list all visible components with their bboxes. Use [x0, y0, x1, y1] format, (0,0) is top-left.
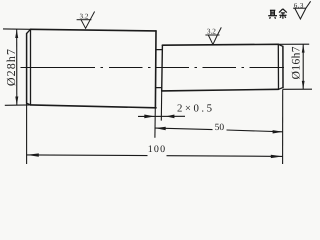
- groove right wall line: [161, 45, 164, 91]
- svg-text:3.2: 3.2: [207, 28, 216, 36]
- groove right extension line down: [160, 91, 162, 121]
- svg-text:3.2: 3.2: [80, 12, 89, 20]
- svg-text:Ø28h7: Ø28h7: [4, 48, 18, 86]
- chamfer diagonal bottom-right: [279, 88, 284, 90]
- dimension line 50 left segment: [155, 128, 212, 130]
- paper background: [0, 0, 319, 170]
- chamfer diagonal top-right: [278, 44, 283, 46]
- extension line top-left (dia 28): [3, 28, 31, 30]
- dimension line dia16h7: [302, 44, 304, 89]
- dimension line 50 right segment: [227, 130, 284, 132]
- big cylinder left end face: [26, 34, 28, 104]
- shoulder extension line down: [154, 108, 156, 138]
- chamfer diagonal bottom-left: [27, 103, 31, 105]
- character QI (其) of 其余: [268, 10, 277, 18]
- extension line top-right (dia 16): [278, 43, 309, 45]
- svg-text:100: 100: [148, 144, 167, 155]
- arrowhead 100 right: [271, 155, 283, 158]
- small cylinder top edge: [162, 43, 278, 46]
- extension line left end down (100): [26, 103, 28, 164]
- arrowhead dia16 bottom: [302, 81, 305, 89]
- roughness symbol 3.2 on big cylinder: [77, 12, 95, 29]
- shoulder face (right edge of big cylinder): [154, 31, 157, 108]
- small cylinder right chamfer base line: [277, 44, 279, 89]
- big cylinder left chamfer base line: [30, 29, 32, 105]
- centerline (axis): [21, 67, 289, 69]
- groove floor top: [156, 49, 162, 51]
- chamfer diagonal top-left: [27, 29, 31, 33]
- dimension line dia28h7: [16, 29, 18, 105]
- extension line right end down (50/100): [282, 89, 284, 164]
- svg-text:2×0.5: 2×0.5: [177, 103, 214, 115]
- small cylinder bottom edge: [162, 89, 279, 91]
- dimension line 100 right segment: [167, 155, 283, 158]
- groove floor bottom: [156, 87, 162, 89]
- roughness symbol 3.2 on small cylinder: [205, 27, 221, 44]
- svg-text:6.3: 6.3: [294, 2, 304, 9]
- arrowhead 50 right: [273, 130, 283, 133]
- arrowhead 2x0.5 right (points left): [166, 115, 175, 119]
- extension line bottom-right (dia 16): [283, 88, 312, 90]
- arrowhead 100 left: [27, 153, 39, 156]
- leader line 2x0.5: [138, 115, 185, 117]
- big cylinder bottom edge: [31, 105, 157, 108]
- arrowhead 2x0.5 left (points right): [144, 115, 154, 119]
- arrowhead dia28 top: [15, 29, 18, 38]
- right end face: [282, 46, 284, 87]
- arrowhead dia28 bottom: [15, 97, 18, 106]
- dimension line 100 left segment: [27, 154, 148, 157]
- big cylinder top edge: [31, 29, 157, 31]
- svg-text:50: 50: [215, 123, 225, 133]
- remainder roughness symbol 6.3 (top right): [293, 1, 311, 19]
- extension line bottom-left (dia 28): [5, 104, 31, 106]
- arrowhead 50 left: [155, 127, 165, 130]
- svg-text:Ø16h7: Ø16h7: [291, 46, 303, 79]
- character YU (余) of 其余: [279, 9, 287, 19]
- arrowhead dia16 top: [302, 44, 305, 52]
